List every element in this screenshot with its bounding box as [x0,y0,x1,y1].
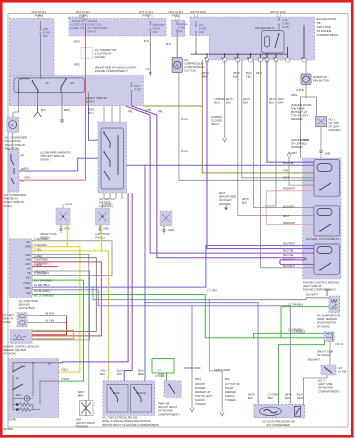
svg-text:OF DASH): OF DASH) [317,353,330,357]
svg-text:30A: 30A [153,30,158,34]
svg-text:GRN: GRN [291,93,297,97]
svg-text:J/B: J/B [317,21,321,25]
svg-text:FENDER, AT: FENDER, AT [195,390,211,394]
wire blue D-branch to pressure sw pin1 [145,303,258,404]
svg-text:FUSE: FUSE [199,27,206,31]
wire blue A3 to switch D [89,106,99,141]
wire A3 to fan motor [13,106,19,117]
svg-text:BRK: BRK [25,286,31,290]
svg-text:HEATER RELAY: HEATER RELAY [255,26,275,30]
svg-text:GAUGE: GAUGE [178,22,188,26]
svg-text:B-R: B-R [144,39,149,43]
fuse block A4 (HTR fuse column) [172,20,185,36]
evaporator temp sensor block F [329,296,340,312]
svg-text:ACT: ACT [25,262,31,266]
svg-text:(FRONT: (FRONT [195,382,206,386]
svg-text:GRN: GRN [278,101,284,105]
svg-text:(RIGHT SIDE OF DASH COCKPIT: (RIGHT SIDE OF DASH COCKPIT [95,66,137,70]
svg-text:HI: HI [16,376,19,380]
svg-text:BATTERY, AT: BATTERY, AT [291,110,308,114]
radiator fan motor M2 [301,74,311,85]
comp bottom stubs in A3 [19,93,89,106]
svg-text:1G: 1G [301,56,305,60]
svg-text:PANEL): PANEL) [95,236,105,240]
svg-text:BLK: BLK [285,396,290,400]
wire gray amp row6 [32,271,90,340]
ground wire from A3 [34,106,42,117]
wire H to I [303,375,327,404]
svg-text:WHT/: WHT/ [78,390,85,394]
svg-text:GND: GND [325,152,331,156]
svg-text:FENDER): FENDER) [291,117,303,121]
svg-text:WHT/: WHT/ [243,97,250,101]
wire gray WHT to R1 [242,60,314,178]
svg-text:4 BLU: 4 BLU [61,368,69,372]
connector block G [324,332,334,342]
svg-text:SINGLE: SINGLE [136,391,146,395]
svg-text:OF RIGHT: OF RIGHT [219,198,232,202]
fan motor symbol [9,121,17,129]
relay R1 [314,160,340,197]
svg-text:1P: 1P [273,56,276,60]
wire fan motor to relay C [12,133,14,150]
wire X comp to ECM top [320,127,322,158]
svg-text:A/C: A/C [199,23,204,27]
svg-text:(FRONT RIGHT: (FRONT RIGHT [158,405,178,409]
svg-text:DASH): DASH) [40,158,48,162]
svg-text:GAUGE): GAUGE) [95,55,106,59]
svg-text:FUSE: FUSE [282,25,289,29]
svg-text:OF LEFT: OF LEFT [291,142,302,146]
svg-text:(AT TOP: (AT TOP [329,121,339,125]
svg-text:WHT: WHT [283,176,289,180]
wire gray to R2 pin2 [238,60,314,216]
svg-text:GND: GND [168,228,174,232]
engine control module block ECM2 [10,330,32,344]
svg-text:WHT/: WHT/ [233,71,240,75]
svg-text:A/C TRIPLE PRESSURE SW: A/C TRIPLE PRESSURE SW [102,416,138,420]
svg-text:A/C AMPLIFIER: A/C AMPLIFIER [19,299,38,303]
wire yellow2 amp to J [32,225,108,381]
svg-text:10A: 10A [178,29,183,33]
svg-text:3 WHT/BLK: 3 WHT/BLK [34,258,48,262]
svg-text:CDS FAN: CDS FAN [153,23,165,27]
pin boxes B bottom edge [205,58,306,62]
wire blue b2 branch to J [144,165,146,380]
svg-text:(COMPRESSOR: (COMPRESSOR [184,65,204,69]
svg-text:WHT/: WHT/ [285,393,292,397]
svg-text:BLU/YEL: BLU/YEL [283,161,295,165]
wire crimson amp stub [32,266,58,268]
svg-text:A/C MAG. CLUTCH RELAY: A/C MAG. CLUTCH RELAY [306,237,339,241]
connector box 3 [160,211,172,226]
wire dark amp to ECM2 [32,262,101,336]
svg-text:6 GRN/WHT: 6 GRN/WHT [34,272,49,276]
svg-text:CLOSED: CLOSED [211,119,222,123]
wire gray to R3 [260,60,314,268]
svg-text:1K: 1K [247,56,250,60]
svg-text:BRN: BRN [64,108,70,112]
svg-text:ENGINE CONTROL MODULE: ENGINE CONTROL MODULE [303,281,340,285]
thermal switch X comp [316,117,327,127]
wire M2 circuit [301,60,317,158]
wire gray amp to ECM2 [32,258,96,332]
svg-text:GY-G: GY-G [181,117,188,121]
svg-text:BLK: BLK [100,372,105,376]
svg-text:OF LEFT: OF LEFT [329,125,340,129]
svg-text:(RIGHT SIDE OF: (RIGHT SIDE OF [5,143,26,147]
svg-text:TIMES: TIMES [172,14,180,18]
fuse top connector boxes [39,13,281,20]
svg-text:BLU/: BLU/ [138,369,144,373]
svg-text:(RIGHT KICK: (RIGHT KICK [41,232,57,236]
svg-text:IGN: IGN [26,276,31,280]
svg-text:WHT: WHT [297,396,303,400]
svg-text:SHOCK: SHOCK [195,398,205,402]
svg-text:DASH): DASH) [4,204,12,208]
svg-text:RED/WHT: RED/WHT [283,221,296,225]
svg-text:PPL: PPL [158,110,164,114]
svg-text:PWR SW: PWR SW [158,402,170,406]
noise filter pins [27,316,67,323]
svg-text:FUSE: FUSE [134,88,141,92]
svg-text:8 LT GRN/RED: 8 LT GRN/RED [34,279,52,283]
svg-text:ENGINE COMPARTMENT): ENGINE COMPARTMENT) [303,288,336,292]
svg-text:BLK: BLK [242,201,247,205]
svg-text:50A: 50A [43,34,48,38]
svg-text:BLU/WHT: BLU/WHT [283,264,295,268]
svg-text:GY-G: GY-G [181,149,188,153]
wire red noise filter to module [32,316,66,335]
svg-text:(BEHIND: (BEHIND [19,303,30,307]
svg-text:A/C: A/C [338,366,343,370]
compressor lock sensor M1 [172,57,182,72]
svg-text:BLK: BLK [41,108,46,112]
triple pressure switch block J [103,381,155,416]
fuse F1 in A1 [40,21,42,77]
module ECM2 internals [13,335,26,340]
condenser fan relay block C [8,150,19,193]
pressure switch block I [254,404,305,417]
svg-text:LT: LT [158,369,161,373]
svg-text:1N: 1N [263,56,266,60]
svg-text:RED: RED [202,75,208,79]
svg-text:AC/RE: AC/RE [8,418,16,422]
svg-text:RIGHT: RIGHT [225,386,234,390]
svg-text:LP SW: LP SW [338,370,347,374]
svg-text:NC LT GRN/BLK: NC LT GRN/BLK [34,294,54,298]
svg-text:PANEL 1-B: PANEL 1-B [71,26,85,30]
svg-text:1C: 1C [21,179,24,183]
svg-text:1L: 1L [204,56,207,60]
wire yellow1 amp to blower L [32,225,80,372]
junction block A2 (top fuse strip) [69,19,166,36]
svg-text:BLU: BLU [215,101,220,105]
svg-text:HOT IN RUN: HOT IN RUN [270,10,286,14]
svg-text:CLUTCH): CLUTCH) [184,69,196,73]
svg-text:(LEFT KICK: (LEFT KICK [95,232,110,236]
svg-text:HTR: HTR [134,84,140,88]
svg-text:FENDER): FENDER) [76,425,88,429]
wire purple pC to R3 [126,106,314,264]
wire gray amp row to evap F [93,287,329,300]
svg-text:41-A2: 41-A2 [104,202,112,206]
svg-text:GND: GND [103,227,109,231]
svg-text:COLR: COLR [23,281,31,285]
wire tan A3 to R1 [143,60,314,173]
svg-text:WHT: WHT [195,377,201,381]
wires A3 to D top [104,106,120,122]
svg-text:BLK: BLK [243,101,248,105]
wire red A2 to relay C [19,25,86,180]
svg-text:TOWER): TOWER) [225,398,236,402]
A/C switch block D [98,122,127,193]
svg-text:TOP OF LEFT: TOP OF LEFT [195,394,213,398]
svg-text:BLK/WHT: BLK/WHT [308,358,320,362]
svg-text:NORMAL: NORMAL [211,115,223,119]
svg-text:(AT TOP OF: (AT TOP OF [225,382,240,386]
svg-text:LT GRN: LT GRN [155,374,165,378]
svg-text:DRIVER: DRIVER [195,386,205,390]
svg-text:3 WHT: 3 WHT [61,377,70,381]
svg-text:WHT/: WHT/ [242,197,249,201]
svg-text:OF DASH): OF DASH) [317,324,330,328]
svg-text:BLU/YEL: BLU/YEL [283,248,295,252]
svg-text:FROM GRND: FROM GRND [184,366,201,370]
svg-text:BLU: BLU [24,167,29,171]
bus wire in B [191,25,304,60]
svg-text:AA: AA [27,267,31,271]
svg-text:1 WHT/BLU: 1 WHT/BLU [34,237,48,241]
green loop box near K [152,359,174,381]
svg-text:BLK: BLK [268,396,273,400]
svg-text:ENGINE CONTROL MODULE: ENGINE CONTROL MODULE [3,345,40,349]
svg-text:(EVAPORATOR: (EVAPORATOR [317,321,336,325]
svg-text:ENGINE COMPARTMENT): ENGINE COMPARTMENT) [95,69,128,73]
svg-text:TE: TE [27,271,31,275]
svg-text:TIMES: TIMES [142,14,150,18]
svg-text:10A: 10A [199,30,204,34]
svg-text:DASH): DASH) [3,320,11,324]
relay R3 [314,244,340,274]
svg-text:BLK: BLK [117,372,122,376]
svg-text:RED/: RED/ [88,108,95,112]
svg-text:(AT LEFT: (AT LEFT [3,313,15,317]
svg-text:HOT AT ALL: HOT AT ALL [139,10,154,14]
noise filter box NF [17,313,27,327]
wire blue D to R1 (b2) [127,164,314,166]
fuse HTR in A3 [131,82,133,106]
svg-text:WHT/: WHT/ [269,97,276,101]
svg-text:OF ENGINE: OF ENGINE [318,386,333,390]
svg-text:OF DASH): OF DASH) [3,352,16,356]
svg-text:5 YEL/BLK: 5 YEL/BLK [34,243,47,247]
svg-text:BLK/: BLK/ [246,71,252,75]
wire gray amp row3 [32,254,89,400]
wire gray amp row0 loop [32,241,112,276]
svg-text:TOWER): TOWER) [195,402,206,406]
engine room J/B block B (top right) [190,17,315,60]
svg-text:7.5A: 7.5A [282,18,288,22]
svg-text:NO. 1: NO. 1 [329,118,337,122]
svg-text:GRN: GRN [24,176,30,180]
wire A4 fuse to M1 [176,36,178,57]
svg-text:GLOVE BOX): GLOVE BOX) [19,306,36,310]
svg-text:DUAL: DUAL [113,391,121,395]
svg-text:(LOCATED IN: (LOCATED IN [95,52,112,56]
svg-text:BLK: BLK [248,396,253,400]
svg-text:BLK: BLK [226,101,231,105]
svg-text:FUSE: FUSE [178,26,185,30]
svg-text:LT GRN/: LT GRN/ [268,393,279,397]
svg-text:TOP OF LEFT: TOP OF LEFT [291,114,309,118]
arrow connector wire to ECM [287,152,314,185]
condenser fan motor block M [7,117,19,133]
svg-text:FENDER: FENDER [225,390,236,394]
svg-text:A W-B: A W-B [296,88,304,92]
svg-text:MPX B: MPX B [88,30,97,34]
svg-text:COMPRESSOR: COMPRESSOR [184,62,203,66]
wire purple pG D to J [124,193,132,381]
wire green long amp to G [32,295,324,338]
svg-text:(FRONT RIGHT: (FRONT RIGHT [76,421,96,425]
svg-text:RELAY: RELAY [211,122,220,126]
svg-text:LT GRN/BLK: LT GRN/BLK [290,330,306,334]
svg-text:BLU: BLU [88,111,93,115]
svg-text:(LEFT SIDE: (LEFT SIDE [318,382,333,386]
svg-text:COMPARTMENT): COMPARTMENT) [158,412,180,416]
svg-text:7 YEL: 7 YEL [34,247,42,251]
svg-text:TIMES: TIMES [35,14,43,18]
svg-text:S20M60: S20M60 [3,427,14,431]
svg-text:(RIGHT SIDE OF: (RIGHT SIDE OF [4,200,25,204]
svg-text:FUSE: FUSE [43,31,50,35]
svg-text:AM1: AM1 [43,27,49,31]
wire blue relay C to switch D [19,158,98,171]
relay C internals [11,154,14,184]
G internals [326,333,333,341]
wire green to evap F pin and pressure sw [281,307,329,338]
connector box 2 (kick panel gnd) [95,208,109,225]
svg-text:WHT: WHT [256,71,262,75]
svg-text:WHT: WHT [219,191,225,195]
svg-text:LT GRN: LT GRN [207,289,217,293]
wire purple pE D to L [59,193,129,363]
svg-text:OF ENGINE: OF ENGINE [158,409,173,413]
svg-text:RED: RED [74,63,80,67]
svg-text:GAUGE: GAUGE [88,19,98,23]
svg-text:NO. 2: NO. 2 [318,379,326,383]
svg-text:COMPARTMENT): COMPARTMENT) [318,389,340,393]
D bottom stubs [104,193,122,199]
svg-text:WHT/: WHT/ [278,97,285,101]
svg-text:A/C CONDENSER: A/C CONDENSER [5,136,27,140]
wire gray to R3 pin5 [265,60,276,206]
svg-text:BLK: BLK [225,377,230,381]
svg-text:A/C CONDENSER: A/C CONDENSER [4,193,26,197]
svg-text:FUSE: FUSE [153,27,160,31]
wire pink to R1/R2 [266,191,314,225]
svg-text:(DUAL & SINGLE PRESSURE SWITCH: (DUAL & SINGLE PRESSURE SWITCH) [102,419,151,423]
svg-text:DASH): DASH) [86,100,94,104]
fuse F2 in A2 right [149,21,151,74]
svg-text:YEL: YEL [246,75,252,79]
svg-text:WHT/: WHT/ [248,393,255,397]
svg-text:A/C: A/C [184,58,189,62]
svg-text:COMPARTMENT): COMPARTMENT) [317,33,339,37]
fuse F3 in A4 [176,21,178,57]
svg-text:BLK/YEL: BLK/YEL [283,253,294,257]
fuse F5 in B right [278,18,280,31]
wire green amp to blower L [32,280,83,381]
svg-text:A/C: A/C [26,240,31,244]
svg-text:FUSE 7.5A: FUSE 7.5A [88,23,102,27]
thermo sub-box on white [81,48,92,59]
wire blue amplifier to R3 (b3) [32,246,314,288]
svg-text:TURN: TURN [282,22,290,26]
svg-text:BLK/WHT: BLK/WHT [306,293,318,297]
relay R2 [314,206,340,236]
svg-text:RED/WHT: RED/WHT [283,187,296,191]
svg-text:YEL/: YEL/ [100,369,106,373]
svg-text:FAN RELAY: FAN RELAY [4,197,19,201]
svg-text:WHT/: WHT/ [226,97,233,101]
svg-text:A1 TAN: A1 TAN [45,319,54,323]
svg-text:HOT AT ALL: HOT AT ALL [32,10,47,14]
relay block H [321,365,336,375]
switch comp in A3 [14,78,85,93]
svg-text:R/B, NEAR: R/B, NEAR [291,107,304,111]
fuse F4 in B left [195,21,197,52]
svg-text:(RIGHT SIDE OF: (RIGHT SIDE OF [86,96,107,100]
orange U wire [32,330,74,339]
svg-text:GNT: GNT [76,418,82,422]
svg-text:(LEFT SIDE: (LEFT SIDE [317,25,332,29]
svg-text:HOT IN RUN: HOT IN RUN [190,10,206,14]
svg-text:FAN: FAN [25,253,30,257]
svg-text:HOT AT ALL: HOT AT ALL [169,10,184,14]
svg-text:A/C SWITCH: A/C SWITCH [99,197,115,201]
svg-text:BLU/RED: BLU/RED [283,241,295,245]
svg-text:OF ENGINE: OF ENGINE [317,29,332,33]
svg-text:A2: A2 [48,362,52,366]
svg-text:BRN: BRN [78,394,84,398]
svg-text:GRN: GRN [291,151,297,155]
svg-text:A/C: A/C [70,81,75,85]
wire indigo B to R1 [267,60,314,162]
svg-text:NO.10: NO.10 [336,342,344,346]
svg-text:4A: 4A [21,153,24,157]
svg-text:Y-G: Y-G [145,67,150,71]
svg-text:(ENGINE SIDE: (ENGINE SIDE [291,138,309,142]
fuse in A2 strip [85,19,87,36]
connector box 1 (kick panel gnd) [56,208,70,225]
svg-text:TOP LEFT SIDE OF: TOP LEFT SIDE OF [40,154,65,158]
svg-text:HI: HI [46,81,49,85]
svg-text:BLU: BLU [269,101,274,105]
svg-text:41-A1: 41-A1 [65,202,73,206]
wire gray to R2 pin1 [254,60,314,208]
wire brn from A3 [61,106,63,120]
svg-text:NC BLU/WHT: NC BLU/WHT [34,289,51,293]
blower block L [8,359,59,418]
svg-text:SIDE OF: SIDE OF [3,317,14,321]
A/C amplifier block AMP [10,239,33,298]
svg-text:10 WHT/BLU: 10 WHT/BLU [34,283,50,287]
wire purple B to R3 [207,60,314,249]
svg-text:A/C THERMO SW: A/C THERMO SW [95,48,117,52]
svg-text:RADIATOR: RADIATOR [313,75,327,79]
